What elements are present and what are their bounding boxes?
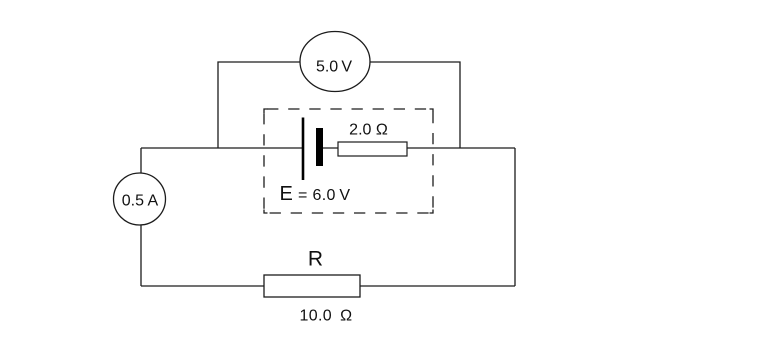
svg-text:R: R (308, 247, 323, 270)
svg-text:10.0 Ω: 10.0 Ω (300, 308, 353, 325)
svg-text:0.5 A: 0.5 A (122, 193, 159, 210)
svg-text:E = 6.0 V: E = 6.0 V (280, 183, 351, 205)
svg-text:5.0 V: 5.0 V (316, 59, 352, 76)
svg-text:2.0 Ω: 2.0 Ω (349, 122, 388, 139)
